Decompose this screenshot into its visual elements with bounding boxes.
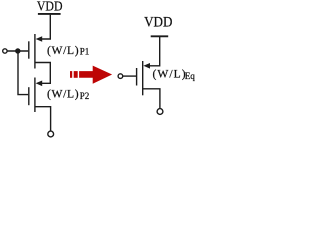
svg-text:(W/L): (W/L)	[47, 44, 79, 57]
svg-text:(W/L): (W/L)	[47, 87, 79, 100]
svg-text:VDD: VDD	[144, 15, 172, 31]
svg-text:(W/L): (W/L)	[153, 68, 186, 81]
svg-text:P2: P2	[80, 91, 90, 101]
svg-text:P1: P1	[80, 47, 90, 57]
svg-text:Eq: Eq	[185, 71, 196, 81]
svg-text:VDD: VDD	[37, 0, 63, 14]
